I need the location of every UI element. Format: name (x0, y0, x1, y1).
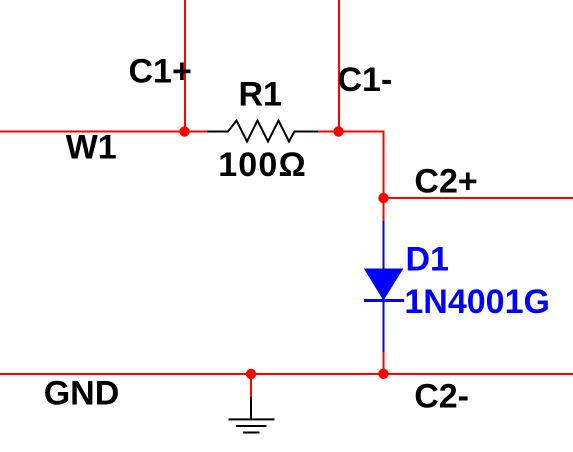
svg-text:C2-: C2- (414, 378, 469, 416)
wire from resistor to corner down to node C2+ (317, 132, 384, 199)
svg-text:D1: D1 (406, 241, 449, 279)
wire diode cathode to node GND rail (383, 352, 385, 374)
junction node C1- (333, 126, 343, 136)
svg-text:1N4001G: 1N4001G (404, 283, 550, 321)
svg-text:C2+: C2+ (414, 163, 477, 201)
wire C1- vertical (338, 0, 340, 132)
svg-text:W1: W1 (66, 129, 117, 167)
wire GND rail horizontal (0, 373, 573, 375)
junction node C2+ (378, 193, 388, 203)
svg-text:C1+: C1+ (129, 53, 192, 91)
wire C1+ vertical (184, 0, 186, 132)
wire W1 horizontal segment (0, 131, 208, 133)
resistor R1 (207, 121, 318, 142)
junction node GND (246, 369, 256, 379)
svg-text:GND: GND (44, 374, 120, 412)
wire C2+ horizontal (384, 197, 573, 199)
svg-text:C1-: C1- (338, 61, 393, 99)
wire stub node C2+ to diode anode (383, 198, 385, 221)
svg-text:R1: R1 (239, 75, 282, 113)
ground (229, 374, 275, 433)
junction node C2- (378, 369, 388, 379)
svg-text:100Ω: 100Ω (218, 146, 307, 184)
diode D1 (364, 221, 404, 352)
junction node W1/C1+ (179, 126, 189, 136)
